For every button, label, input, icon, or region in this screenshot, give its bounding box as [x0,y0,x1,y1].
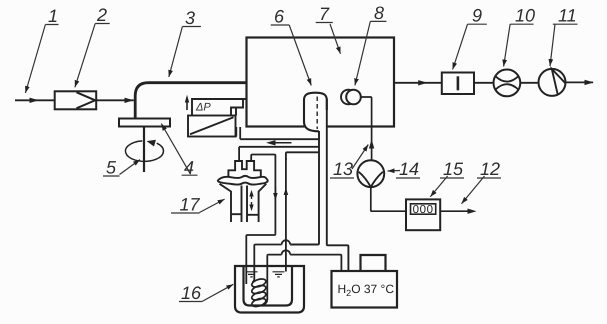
svg-text:8: 8 [374,3,384,23]
label 12 [462,176,502,204]
chamber box 7 [247,38,395,127]
pump 11 circle [539,69,566,96]
H1 corner down into beaker [254,245,281,283]
svg-text:1: 1 [48,6,58,26]
H2 inner wall right [290,255,341,271]
cylinder 6 white fill [304,93,327,132]
wire outlet right [566,81,594,83]
wire pump to counter [371,187,406,211]
roller 8 back circle [341,90,356,105]
L5 into beaker [266,256,268,300]
valve channel up arrow [251,195,253,199]
water bath box [332,271,398,308]
valve diaphragm bottom wave [217,181,268,185]
svg-text:16: 16 [181,283,202,303]
svg-text:4: 4 [184,158,194,178]
svg-text:2: 2 [96,5,107,25]
cylinder drain tube left wall [290,131,319,245]
pump 14 circle [357,160,384,187]
label 1 [25,25,58,94]
up arrow on pump line [369,139,374,148]
H2 inner wall left [267,255,281,256]
feed line to valve right prong [251,155,275,234]
label 3 [169,27,201,78]
ramp diagonal [190,117,234,134]
shaft of disc [143,127,145,173]
wire filter to pipe [96,99,134,101]
beaker inner vessel [244,267,293,306]
coil feed stub [253,280,255,283]
label 13 [330,145,368,179]
water level mark right [273,272,285,277]
svg-text:000: 000 [413,204,434,216]
svg-text:10: 10 [515,6,535,26]
svg-text:3: 3 [185,8,195,28]
label 16 [179,284,233,301]
water level mark left [246,272,258,277]
svg-text:6: 6 [274,7,285,27]
labels group [25,21,577,301]
tube U up arrow [285,194,287,199]
tube D jog to beaker [246,234,275,284]
port from box bottom [236,127,240,139]
label 10 [504,24,534,66]
wire box to filter 9 [394,82,442,84]
label 5 [103,160,140,176]
label 9 [453,24,487,69]
flowmeter 10 circle [494,70,521,97]
svg-text:H2O 37 °C: H2O 37 °C [338,282,395,298]
bump on H1 over U [282,240,291,244]
recorder ramp box [188,116,236,137]
svg-text:5: 5 [106,158,117,178]
svg-text:15: 15 [443,159,464,179]
pump 14 wedge [359,172,383,187]
pipe 3 [135,83,246,119]
water bath cap [361,255,386,271]
main tube under box top wall [240,138,319,140]
cylinder funnel curve [304,122,319,132]
wire inlet line [15,99,55,101]
tube D down arrow [274,187,276,194]
dP chamber [192,99,247,116]
valve diaphragm top wave [217,176,268,181]
counter display [411,204,436,214]
valve seat crossbars [231,213,259,216]
filter 2 chevron [77,92,96,108]
flowmeter 10 venturi curves [495,76,518,89]
inlet arrowhead [30,98,39,103]
pump 11 wedge [552,69,566,95]
wire 10 to pump 11 [520,82,538,84]
label 4 [161,124,197,176]
cylinder drain tube right wall to water bath [327,99,349,271]
svg-text:14: 14 [399,159,419,179]
cylinder 6 dome outline [304,93,327,122]
feed line to valve left prong [238,147,240,161]
arrowhead [418,80,427,85]
platform 4 [119,119,170,127]
valve legs [220,184,267,222]
arrowhead at pipe [125,98,134,103]
label 17 [171,199,225,213]
roller 8 [346,90,361,105]
ramp bottom extension to port [236,136,237,138]
rotation arrow 5 [125,141,163,162]
label 6 [271,25,312,86]
filter 9 box [442,73,474,95]
wire counter outlet 12 [440,210,469,212]
tube U [285,158,287,272]
tube U feed line [286,152,319,160]
svg-text:7: 7 [319,4,330,24]
svg-text:11: 11 [558,6,577,26]
label 14 [388,171,421,179]
left flow arrow in tube [272,142,292,144]
coil exit curve [264,299,268,305]
wire 9 to flowmeter 10 [474,82,494,84]
svg-text:ΔP: ΔP [195,102,211,114]
filter 9 center bar [457,76,460,90]
label 15 [430,176,464,197]
cylinder dashed centerline [316,97,318,130]
bump on H2 over U [282,250,291,254]
main tube under box bottom wall [239,146,319,148]
filter 2 [55,91,96,109]
label 2 [75,24,110,88]
valve 17 body top prongs [228,161,260,177]
label 8 [355,21,387,85]
svg-text:17: 17 [180,194,201,214]
svg-text:13: 13 [333,159,353,179]
svg-text:9: 9 [472,6,482,26]
svg-text:12: 12 [480,159,500,179]
label 7 [316,23,341,54]
counter 15 box [406,199,440,230]
coil in beaker [251,277,267,308]
valve channel down arrow [251,202,253,206]
beaker 16 outer [235,266,304,313]
label 11 [550,24,578,66]
wire from roller 8 down to pump 13 [361,97,372,160]
dP sensor up arrow [186,100,188,110]
